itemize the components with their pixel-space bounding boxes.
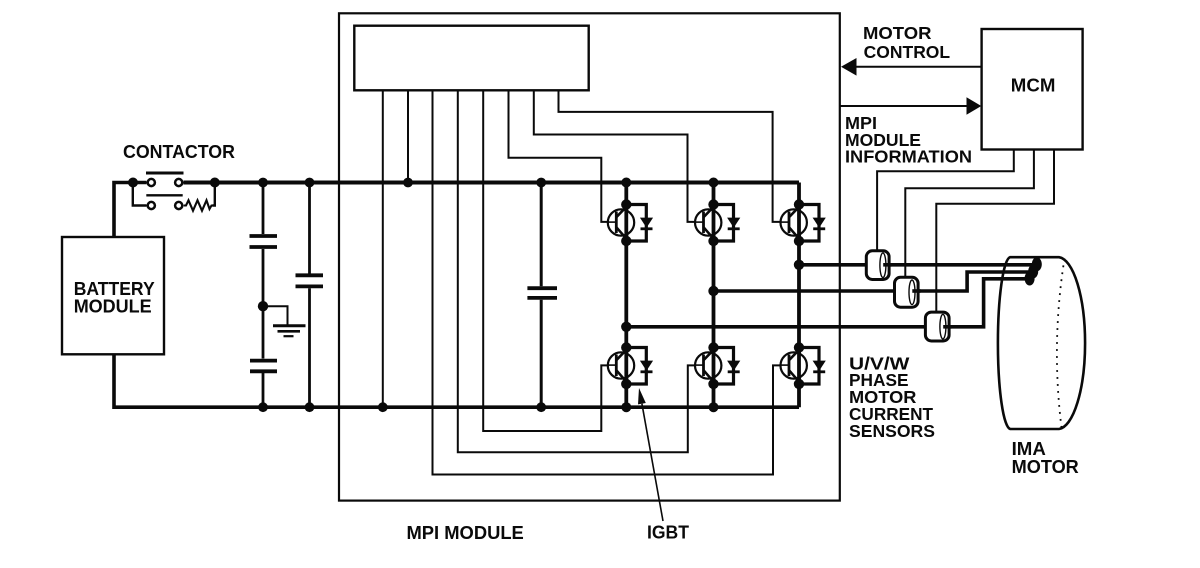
label MOTOR CONTROL <box>863 23 950 62</box>
wire phase V (leg2 to sensor2 to motor) <box>714 272 1032 291</box>
motor IMA body <box>998 257 1085 429</box>
transistor Q1 <box>608 204 635 243</box>
label MPI MODULE INFORMATION <box>845 113 972 167</box>
wire MCM to sensor W <box>877 150 1014 250</box>
current sensor U <box>925 312 951 341</box>
label CONTACTOR <box>123 141 235 162</box>
contactor main contact blade bar <box>146 172 184 175</box>
MPI module outer box <box>339 13 840 500</box>
motor terminal dots <box>1025 257 1042 285</box>
arrow MPI MODULE INFORMATION (MPI to MCM) <box>840 97 982 114</box>
transistor Q4 <box>608 347 635 386</box>
node phase U tap <box>621 322 631 332</box>
node leg1 bottom bus <box>621 402 631 412</box>
diode D4 <box>626 348 653 385</box>
current sensor W <box>866 251 891 280</box>
node phase W tap <box>794 260 804 270</box>
ground <box>273 326 306 336</box>
node Q5 emitter <box>708 379 718 389</box>
node leg1 top bus <box>621 178 631 188</box>
wire control board output 2 (to top bus) <box>407 90 409 182</box>
svg-text:INFORMATION: INFORMATION <box>845 147 972 167</box>
node battery mid tap <box>258 301 268 311</box>
label BATTERY MODULE <box>74 279 155 317</box>
inner control board box <box>354 26 588 91</box>
wire contactor precharge branch left drop <box>133 184 147 206</box>
wire control board output 1 (to bottom rail) <box>382 90 384 407</box>
node C3 bottom <box>305 402 315 412</box>
capacitor C2 lower plates <box>250 306 277 407</box>
label IGBT <box>647 522 689 542</box>
node Q1 emitter <box>621 236 631 246</box>
node leg2 bottom bus <box>709 402 719 412</box>
diode D6 <box>799 348 826 385</box>
svg-text:SENSORS: SENSORS <box>849 421 935 441</box>
node contactor right <box>210 178 220 188</box>
arrow IGBT pointer <box>638 388 663 521</box>
svg-text:CONTACTOR: CONTACTOR <box>123 141 235 162</box>
diode D5 <box>714 348 741 385</box>
svg-text:MCM: MCM <box>1011 76 1056 96</box>
label IMA MOTOR <box>1012 439 1079 477</box>
capacitor C1 upper plates <box>250 183 278 307</box>
node Q2 emitter <box>708 236 718 246</box>
IGBT leg1 column <box>624 183 628 408</box>
wire to chassis ground <box>263 306 288 324</box>
wire gate lower Q4 <box>483 90 608 431</box>
node output2 top bus <box>403 178 413 188</box>
wire MCM to sensor V <box>905 150 1034 277</box>
wire top bus left segment (battery + to contactor) <box>114 183 147 238</box>
transistor Q5 <box>695 347 722 386</box>
node C1 top bus <box>258 178 268 188</box>
transistor Q6 <box>780 347 807 386</box>
diode D1 <box>626 205 653 242</box>
node C2 bottom bus <box>258 402 268 412</box>
svg-text:MOTOR: MOTOR <box>863 23 932 43</box>
node output1 bottom bus <box>378 402 388 412</box>
battery module box <box>62 237 164 354</box>
contactor main contact terminals <box>148 179 183 186</box>
wire gate upper Q1 <box>509 90 608 222</box>
svg-text:CONTROL: CONTROL <box>864 42 950 62</box>
arrow MOTOR CONTROL (MCM to MPI) <box>841 58 982 76</box>
transistor Q3 <box>780 204 807 243</box>
wire gate lower Q6 <box>433 90 781 474</box>
IGBT leg2 column <box>712 183 716 408</box>
node Q6 collector <box>794 342 804 352</box>
MCM box <box>982 29 1083 150</box>
node contactor left <box>128 178 138 188</box>
node Q1 collector <box>621 199 631 209</box>
capacitor C4 dc link <box>527 183 557 408</box>
wire gate lower Q5 <box>458 90 695 452</box>
node C4 top <box>536 178 546 188</box>
svg-text:MPI MODULE: MPI MODULE <box>407 523 524 543</box>
svg-text:MOTOR: MOTOR <box>1012 457 1079 477</box>
contactor separator bar <box>146 194 182 196</box>
wire phase U (leg1 to sensor3 to motor) <box>626 279 1028 327</box>
wire top bus right segment (contactor to IGBT bridge) <box>184 181 800 185</box>
node Q2 collector <box>708 199 718 209</box>
diode D2 <box>714 205 741 242</box>
node C3 top <box>305 178 315 188</box>
svg-text:MODULE: MODULE <box>74 297 152 317</box>
svg-text:IMA: IMA <box>1012 439 1046 459</box>
label MCM <box>1011 76 1056 96</box>
node Q4 collector <box>621 342 631 352</box>
transistor Q2 <box>695 204 722 243</box>
wire bottom bus (battery - rail) <box>114 354 799 407</box>
wire gate upper Q2 <box>534 90 695 222</box>
label U/V/W PHASE MOTOR CURRENT SENSORS <box>849 354 935 442</box>
svg-text:IGBT: IGBT <box>647 522 689 542</box>
node Q4 emitter <box>621 379 631 389</box>
node leg2 top bus <box>709 178 719 188</box>
node Q3 collector <box>794 199 804 209</box>
current sensor V <box>895 277 921 307</box>
wire MCM to sensor U <box>936 150 1054 312</box>
resistor precharge <box>184 200 213 210</box>
wire phase W (leg3 to sensor1 to motor) <box>799 263 1035 267</box>
capacitor C3 <box>296 183 324 408</box>
label MPI MODULE <box>407 523 524 543</box>
wire precharge up to bus <box>213 184 215 206</box>
wire gate upper Q3 <box>559 90 781 222</box>
contactor precharge contact terminals <box>148 202 183 209</box>
node Q5 collector <box>708 342 718 352</box>
node C4 bottom <box>536 402 546 412</box>
node phase V tap <box>708 286 718 296</box>
diode D3 <box>799 205 826 242</box>
node Q3 emitter <box>794 236 804 246</box>
IGBT leg3 column <box>797 183 801 408</box>
node Q6 emitter <box>794 379 804 389</box>
